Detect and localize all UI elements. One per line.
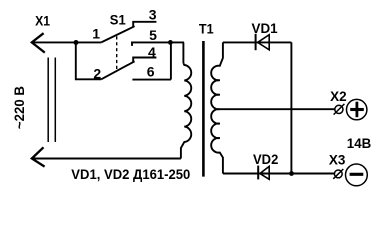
switch S1 blade pole 1: [101, 26, 134, 42]
svg-text:14В: 14В: [347, 135, 371, 151]
switch S1 blade pole 2: [101, 61, 134, 79]
minus output symbol: [346, 164, 368, 186]
switch S1 mechanical link dashed: [116, 36, 118, 70]
terminal X2 slash: [334, 104, 345, 115]
svg-text:VD1, VD2 Д161-250: VD1, VD2 Д161-250: [71, 166, 190, 182]
wire vertical connector contacts 5-6: [170, 42, 172, 79]
terminal X3 slash: [333, 169, 343, 179]
switch S1 contact 6 line: [132, 79, 171, 81]
svg-text:VD2: VD2: [253, 151, 278, 167]
wire switch to transformer primary top: [182, 42, 184, 63]
transformer T1 primary winding: [181, 63, 191, 158]
wire secondary bottom to X3: [223, 173, 335, 175]
connector X1 bottom pin arrow: [32, 147, 45, 166]
wire bottom from X1 to transformer primary: [32, 158, 181, 160]
svg-text:6: 6: [147, 63, 155, 79]
node junction at contact 5: [168, 40, 173, 45]
svg-text:VD1: VD1: [252, 20, 278, 36]
plus output symbol: [347, 99, 367, 119]
diode VD2 triangle: [260, 166, 269, 179]
diode VD2 cathode bar: [257, 166, 259, 180]
svg-text:S1: S1: [110, 12, 126, 28]
svg-text:X1: X1: [35, 12, 50, 28]
svg-text:3: 3: [149, 6, 157, 22]
switch S1 contact 5 line with hook: [132, 42, 184, 46]
diode VD1 cathode bar: [255, 34, 257, 50]
connector X1 top pin arrow: [32, 33, 45, 52]
svg-text:X3: X3: [329, 152, 346, 168]
transformer T1 core: [202, 41, 205, 177]
terminal X2 circle: [335, 105, 343, 113]
wire secondary top to rectifier: [223, 41, 292, 43]
switch S1 contact 4 line with hook: [133, 58, 156, 62]
svg-text:2: 2: [93, 65, 101, 81]
terminal X3 circle: [334, 170, 342, 178]
svg-text:1: 1: [92, 26, 100, 42]
plug cable line right: [54, 58, 56, 143]
svg-text:4: 4: [148, 44, 156, 60]
wire junction drop to pin 2: [76, 42, 101, 79]
transformer T1 secondary winding: [211, 42, 223, 173]
node junction bottom: [289, 171, 294, 176]
wire center tap to X2: [220, 108, 335, 110]
wire top from X1 to switch pin 1: [32, 41, 101, 43]
plug cable line left: [47, 58, 49, 143]
svg-text:~220 В: ~220 В: [11, 86, 27, 129]
switch S1 contact 3 line with hook: [133, 22, 156, 27]
svg-text:5: 5: [149, 27, 157, 43]
diode VD1 triangle: [258, 35, 270, 50]
svg-text:X2: X2: [330, 88, 347, 104]
wire rectifier right vertical: [290, 42, 292, 173]
node junction at top wire: [74, 40, 79, 45]
svg-text:T1: T1: [199, 21, 214, 37]
